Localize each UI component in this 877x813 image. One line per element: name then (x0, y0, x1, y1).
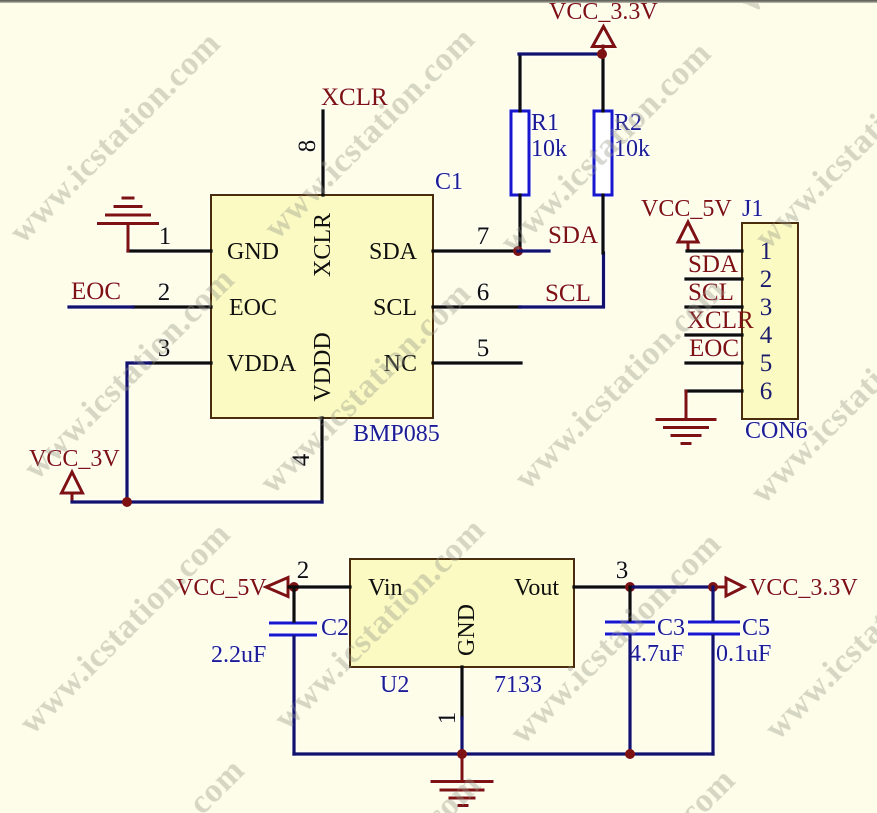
pin number 2 (158, 279, 171, 306)
wire VDDA to VCC_3V rail (127, 363, 150, 502)
junction dot C5/VCC_3.3V (708, 582, 718, 592)
pin 2 stub Vin (289, 585, 350, 588)
J1 pin number 2 (760, 266, 773, 293)
wire VCC_3V rail (72, 500, 322, 503)
regulator U2 body (350, 559, 574, 667)
wire C2 top (292, 587, 295, 621)
R2 bottom pin (601, 195, 604, 253)
R1 top pin (518, 56, 521, 111)
wire C3 bottom to rail (628, 636, 631, 754)
junction dot Vout/C3 (625, 582, 635, 592)
pin number 5 (477, 335, 490, 362)
wire C3 top (628, 587, 631, 620)
part name CON6 (745, 418, 808, 444)
J1 pin 4 stub (686, 333, 742, 336)
junction dot SDA (513, 246, 523, 256)
net label XCLR (321, 84, 388, 111)
junction dot VCC_3.3V (597, 49, 607, 59)
pin name VDDD (vertical) (310, 332, 336, 401)
power label VCC_5V (U2) (176, 575, 267, 601)
designator U2 (380, 672, 409, 698)
value 4.7uF (629, 641, 684, 667)
pin name GND (vertical) (454, 604, 480, 656)
R1 bottom pin (518, 195, 521, 251)
pin 7 stub SDA (433, 249, 516, 252)
J1 pin number 5 (760, 350, 773, 377)
net label SDA (J1) (688, 251, 738, 278)
wire C2 bottom to rail (292, 637, 295, 754)
pin 3 stub Vout (574, 585, 628, 588)
capacitor C3 (605, 622, 655, 634)
pin name GND (227, 239, 279, 265)
pin number 8 (294, 140, 321, 153)
pin number 3 (U2) (616, 557, 629, 584)
resistor R1 (511, 111, 529, 195)
power label VCC_3V (29, 446, 120, 472)
designator C1 (435, 169, 463, 195)
J1 pin 6 stub (686, 389, 742, 392)
J1 pin number 4 (760, 322, 773, 349)
pin number 7 (477, 223, 490, 250)
pin 8 stub (XCLR top) (321, 111, 324, 195)
power label VCC_5V (J1) (641, 196, 732, 222)
power symbol VCC_5V left arrow (266, 578, 288, 597)
pin name EOC (229, 295, 277, 321)
J1 pin 2 stub (686, 277, 742, 280)
part name BMP085 (353, 421, 440, 447)
J1 pin number 3 (760, 294, 773, 321)
wire Vout to VCC_3.3V (630, 585, 713, 588)
pin name VDDA (227, 351, 297, 377)
pin name Vout (514, 575, 559, 601)
wire SCL to R2 (520, 253, 604, 307)
power label VCC_3.3V (right) (749, 575, 858, 601)
pin number 6 (477, 279, 490, 306)
value 10k (R2) (614, 136, 650, 162)
ground symbol (J1) (657, 391, 715, 444)
J1 pin 5 stub (686, 361, 742, 364)
J1 pin 3 stub (686, 305, 742, 308)
ground symbol (bottom) (432, 754, 492, 806)
junction dot VDDA/VCC_3V (122, 497, 132, 507)
power symbol VCC_5V (J1) (678, 222, 698, 251)
capacitor C5 (688, 622, 740, 634)
designator C3 (657, 615, 685, 641)
pin number 1 (U2, vertical) (434, 712, 461, 725)
pin 4 stub (VDDD bottom) (320, 418, 323, 502)
wire EOC (69, 305, 133, 308)
designator R2 (614, 110, 642, 136)
pin number 1 (159, 223, 172, 250)
junction dot Vin (289, 582, 299, 592)
ground rail wire (294, 752, 713, 755)
resistor R2 (594, 111, 612, 195)
pin 5 stub NC (433, 361, 521, 364)
designator R1 (531, 110, 559, 136)
pin 3 stub VDDA (150, 361, 211, 364)
pin number 3 (158, 335, 171, 362)
value 0.1uF (716, 641, 771, 667)
designator C5 (742, 615, 770, 641)
pin number 4 (288, 453, 315, 466)
wire R1 top to VCC_3.3V (519, 52, 603, 55)
net label XCLR (J1) (687, 307, 754, 334)
junction dot rail/C3 (625, 749, 635, 759)
pin number 2 (U2) (297, 557, 310, 584)
capacitor C2 (269, 623, 317, 635)
pin name XCLR (vertical) (310, 213, 336, 277)
power symbol VCC_3.3V right arrow (713, 578, 744, 596)
net label SDA (548, 222, 598, 249)
part name 7133 (494, 672, 542, 698)
designator J1 (742, 196, 763, 222)
wire C5 top (711, 587, 714, 620)
net label EOC (J1) (689, 335, 739, 362)
net label SCL (545, 280, 591, 307)
pin name Vin (368, 575, 403, 601)
pin name NC (384, 351, 417, 377)
power symbol VCC_3.3V (593, 27, 615, 53)
power symbol VCC_3V (62, 472, 83, 502)
pin 1 stub GND (U2) (460, 667, 463, 754)
wire C5 bottom to rail (711, 636, 714, 754)
value 2.2uF (211, 642, 266, 668)
J1 pin 1 stub (687, 249, 742, 252)
wire SDA stub (518, 249, 549, 252)
R2 top pin (601, 56, 604, 111)
pin 2 stub EOC (133, 305, 211, 308)
net label EOC (71, 278, 121, 305)
ground symbol (top left, inverted earth) (99, 198, 158, 251)
J1 pin number 1 (760, 238, 773, 265)
IC U1 body BMP085 (211, 195, 433, 418)
pin name SCL (373, 295, 417, 321)
pin 6 stub SCL (433, 305, 520, 308)
value 10k (R1) (531, 136, 567, 162)
pin name SDA (369, 239, 418, 265)
connector J1 body (742, 223, 798, 419)
net label SCL (J1) (688, 279, 734, 306)
junction dot rail/GND (457, 749, 467, 759)
designator C2 (321, 615, 349, 641)
power label VCC_3.3V (549, 0, 658, 25)
pin 1 stub + wire to ground (128, 249, 211, 252)
J1 pin number 6 (760, 378, 773, 405)
